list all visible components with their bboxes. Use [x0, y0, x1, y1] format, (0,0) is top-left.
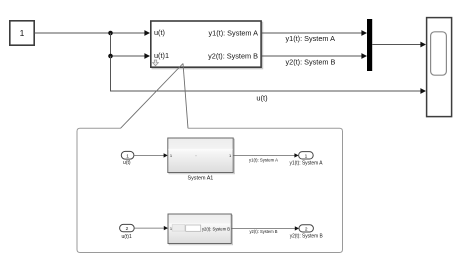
svg-text:y2(t): System B: y2(t): System B: [290, 234, 323, 240]
contents panel frame: [77, 128, 343, 252]
wire System A1 to outport 1: [233, 153, 298, 157]
outport 1: [299, 152, 314, 160]
subsystem preview badge (down arrow): [153, 60, 159, 66]
callout line left (subsystem to contents panel): [121, 64, 184, 129]
wire u(t) from junction to scope input 2: [111, 56, 427, 94]
svg-text:y2(t): System B: y2(t): System B: [286, 58, 336, 67]
svg-text:2: 2: [126, 226, 129, 232]
outport 2: [299, 225, 313, 233]
block System A1: [168, 138, 235, 174]
svg-text:u(t)1: u(t)1: [154, 51, 169, 60]
svg-text:y1(t): System A: y1(t): System A: [209, 29, 259, 38]
mux bar: [367, 19, 372, 71]
svg-text:1: 1: [20, 28, 25, 38]
junction node 1: [108, 31, 113, 36]
svg-text:2: 2: [305, 227, 308, 233]
svg-text:y1(t): System A: y1(t): System A: [249, 158, 279, 164]
inport 1: [121, 151, 134, 159]
svg-text:u(t): u(t): [154, 28, 165, 37]
svg-text:y2(t): System B: y2(t): System B: [208, 52, 258, 61]
svg-text:y2(t): System B: y2(t): System B: [250, 229, 278, 235]
callout line right (subsystem to contents panel): [183, 64, 188, 129]
svg-text:u(t): u(t): [123, 160, 131, 166]
svg-text:1: 1: [126, 153, 129, 159]
svg-text:y1(t): System A: y1(t): System A: [290, 161, 324, 167]
svg-text:1: 1: [305, 153, 308, 159]
constant block 1: [10, 21, 34, 45]
scope block: [427, 18, 452, 117]
wire subsystem output 1 to mux: [262, 30, 368, 36]
wire inport 2 to System B block: [134, 226, 168, 230]
svg-text:y2(t): System B: y2(t): System B: [202, 226, 230, 231]
junction node 2: [108, 54, 113, 59]
inport 2: [120, 224, 135, 232]
wire System B block to outport 2: [231, 226, 299, 230]
wire from constant to subsystem input 1: [35, 30, 151, 36]
wire inport 1 to System A1: [134, 153, 168, 157]
wire mux to scope input 1: [372, 42, 426, 48]
svg-text:u(t)1: u(t)1: [121, 234, 132, 240]
wire subsystem output 2 to mux: [262, 53, 368, 59]
block System B preview: [168, 214, 233, 245]
subsystem block U1: [151, 21, 263, 69]
svg-text:y1(t): System A: y1(t): System A: [286, 34, 336, 43]
svg-text:u(t): u(t): [256, 94, 268, 103]
wire branch to subsystem input 2: [111, 33, 151, 59]
svg-text:System A1: System A1: [188, 175, 214, 181]
